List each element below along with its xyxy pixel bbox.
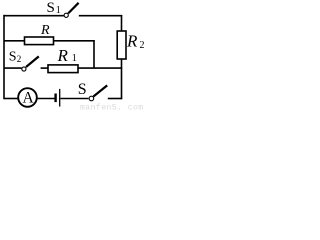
svg-text:S: S xyxy=(9,49,17,64)
switch S1 xyxy=(64,3,79,18)
resistor R xyxy=(25,37,54,45)
svg-text:2: 2 xyxy=(17,54,22,64)
wire: top right segment xyxy=(79,15,122,17)
wire: branch2 middle xyxy=(41,67,49,69)
wire: right vertical upper xyxy=(121,15,123,32)
switch S2 xyxy=(22,56,39,71)
wire: right vertical lower xyxy=(121,59,123,99)
wire: left vertical xyxy=(3,15,5,99)
svg-text:1: 1 xyxy=(72,53,77,64)
resistor R1 xyxy=(48,65,78,73)
svg-text:R: R xyxy=(126,31,138,50)
svg-text:manfen5. com: manfen5. com xyxy=(80,104,144,113)
wire: branch2 right xyxy=(78,67,122,69)
svg-text:2: 2 xyxy=(140,40,145,51)
ammeter A xyxy=(18,88,37,107)
switch S xyxy=(89,85,107,100)
battery cell: long thin positive plate xyxy=(59,89,61,107)
svg-text:S: S xyxy=(47,0,55,16)
wire: branch2 left xyxy=(4,67,22,69)
wire: top left segment xyxy=(4,15,64,17)
svg-text:R: R xyxy=(40,23,50,38)
wire: branch1 left xyxy=(4,40,25,42)
svg-text:S: S xyxy=(78,81,87,98)
wire: bottom right xyxy=(108,98,122,100)
wire: branch1 right xyxy=(54,40,95,42)
svg-text:A: A xyxy=(23,90,35,107)
wire: battery to switch S xyxy=(60,98,88,100)
battery cell: short thick negative plate xyxy=(54,94,56,103)
wire: bottom, ammeter to battery xyxy=(37,98,55,100)
svg-text:R: R xyxy=(57,46,69,65)
wire: middle vertical connector xyxy=(93,40,95,68)
svg-text:1: 1 xyxy=(56,5,61,16)
wire: bottom left xyxy=(4,98,18,100)
resistor R2 xyxy=(117,31,126,59)
